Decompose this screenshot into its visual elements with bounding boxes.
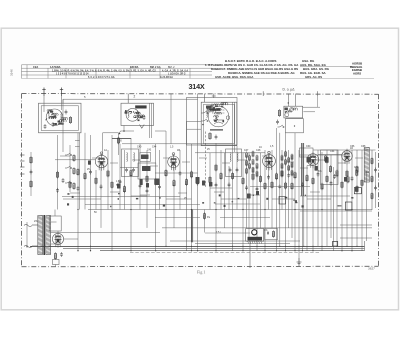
screened lead (dark double line) [301, 143, 303, 196]
tuning drive dashed link [205, 132, 207, 189]
capacitor C50 [267, 232, 268, 235]
resistor R3 [30, 180, 32, 188]
electrolytic capacitor [60, 252, 63, 257]
resistor R50 [371, 157, 373, 164]
svg-text:C48: C48 [256, 149, 261, 152]
svg-text:1,05%, 3,5 %, R, 6,% 2%, 5%,: 1,05%, 3,5 %, R, 6,% 2%, 5%, 8,4, 2 %, 9… [52, 69, 156, 72]
capacitor [65, 110, 68, 115]
bus y=241 [170, 240, 300, 242]
oscillator coil scribble [214, 112, 225, 122]
antenna terminal 1 [43, 88, 45, 97]
resistor R46 [329, 165, 331, 173]
dark component cluster [344, 177, 347, 182]
svg-text:C70: C70 [354, 166, 359, 169]
HT bus y=246.4 [30, 245, 365, 247]
resistor [259, 175, 261, 183]
capacitor [221, 103, 224, 108]
resistor chain element [281, 171, 283, 178]
resistor [341, 181, 343, 189]
switch resistor [73, 182, 75, 190]
lead continuation inside S1 [43, 103, 45, 112]
speaker winding dark band [248, 237, 263, 241]
capacitor [179, 171, 182, 176]
switch resistor [73, 167, 75, 175]
resistor R52 [371, 192, 373, 199]
bus y=248.7 [63, 248, 365, 250]
dark component cluster [88, 161, 91, 165]
resistor [242, 177, 244, 185]
resistor chain element [252, 159, 254, 166]
valve V1 (RF amplifier) [95, 153, 107, 170]
resistor [95, 177, 97, 185]
resistor chain element [252, 151, 254, 158]
coil [127, 153, 128, 162]
dark component cluster [202, 181, 205, 186]
wire bus: vertical wires [27, 94, 367, 267]
wire drop into S1 [62, 99, 64, 103]
dark component cluster [155, 179, 160, 186]
shield box S2 (RF coils) [121, 103, 154, 125]
resistor chain element [256, 155, 258, 162]
dark component cluster [140, 179, 143, 185]
wire: aerial lead-in right [61, 96, 63, 103]
capacitor [351, 176, 354, 181]
resistor [155, 178, 157, 186]
resistor chain element [285, 151, 287, 158]
capacitor [119, 179, 122, 184]
coil [137, 112, 138, 119]
resistor [271, 181, 273, 189]
component box B2 [345, 202, 352, 210]
IF transformer T1 box [122, 149, 139, 177]
resistor [173, 179, 175, 187]
wire: heavy lead under S2 [112, 138, 131, 140]
capacitor [287, 173, 290, 178]
resistor [130, 169, 132, 177]
svg-text:3627: 3627 [368, 266, 375, 270]
IFT1 upper chamber [140, 152, 151, 161]
converter cathode bar [210, 129, 223, 131]
dark component cluster [209, 182, 212, 187]
capacitor C30 [276, 120, 279, 125]
wire: speaker to frame bottom [249, 241, 251, 268]
resistor [321, 183, 323, 191]
wire: D leads to frame [287, 94, 289, 107]
valve V2 (IF amplifier) [168, 154, 180, 171]
dark component cluster [247, 194, 251, 199]
wire: rectifier box to HT rail [54, 210, 56, 217]
resistor chain element [252, 167, 254, 174]
resistor R30 [272, 230, 274, 238]
capacitor C65 [333, 174, 336, 179]
resistor chain element [291, 162, 293, 169]
coil [48, 111, 51, 119]
antenna terminal 2 [61, 88, 63, 97]
component box B1 [354, 188, 361, 194]
svg-text:D. o. μΔ: D. o. μΔ [283, 88, 296, 92]
IFT1 lower chamber [138, 163, 156, 179]
bus y=228 [162, 227, 372, 229]
capacitor [245, 185, 248, 190]
switch contact [65, 153, 72, 156]
svg-text:AGRS: AGRS [353, 72, 361, 76]
IF transformer T2 box [226, 149, 242, 177]
resistor R2 [30, 156, 32, 164]
component box B3 [279, 197, 286, 205]
resistor chain element [246, 168, 248, 175]
capacitor C73 [374, 186, 377, 191]
fuse box below [53, 260, 60, 265]
dark component cluster [146, 183, 149, 188]
wire: AVC top rail [63, 98, 198, 100]
svg-text:C60: C60 [306, 145, 311, 148]
capacitor [215, 183, 218, 188]
shield box S1 (aerial coils) [39, 103, 82, 133]
converter tube envelope [208, 106, 229, 127]
RF coil winding scribble [134, 115, 145, 121]
lamp wiring scribble [285, 108, 298, 113]
transformer tap stubs [51, 221, 57, 223]
resistor R51 [371, 175, 373, 182]
resistor [146, 175, 148, 183]
short lead segments [60, 156, 363, 196]
resistor chain element [256, 163, 258, 170]
chassis dashed frame right [378, 94, 380, 266]
HT line y=232.6 [63, 232, 160, 234]
right interconnect wires [299, 150, 376, 238]
capacitor [256, 187, 259, 192]
line y=143.8 [122, 143, 232, 145]
resistor [117, 137, 119, 145]
switch resistor [73, 154, 75, 162]
oscillator coil scribble [207, 103, 228, 113]
bus junction dots [26, 246, 27, 247]
capacitor [44, 124, 47, 129]
svg-text:2: 2 [134, 95, 136, 99]
resistor chain element [246, 152, 248, 159]
switch contact [202, 111, 209, 114]
resistor Pa [203, 212, 205, 219]
svg-text:C47: C47 [244, 149, 249, 152]
IFT1 lower coil smudge [142, 166, 151, 171]
capacitor [100, 184, 103, 189]
bus y=243.6 [195, 243, 290, 245]
resistor [232, 172, 234, 180]
speaker magnet circle [252, 230, 257, 235]
rectifier shield box [49, 216, 61, 231]
svg-text:1B: 1B [177, 149, 180, 152]
resistor chain element [281, 155, 283, 162]
dial lamp box [284, 106, 303, 118]
mains plug wavy leads [24, 224, 38, 247]
capacitor [301, 182, 304, 187]
resistor chain element [249, 163, 251, 170]
coil [230, 153, 231, 162]
wire: D box to right [303, 106, 320, 108]
capacitor [77, 186, 80, 191]
far-right component column [371, 150, 373, 210]
capacitor [267, 175, 270, 180]
resistor [107, 170, 109, 178]
wire: long vertical x186.5 [186, 121, 188, 250]
resistor [336, 170, 338, 178]
svg-text:C2A: C2A [33, 65, 38, 69]
parts table frame [22, 65, 375, 79]
mains transformer core [43, 215, 45, 255]
dark component cluster [315, 166, 318, 171]
switch contact [202, 119, 209, 122]
IFT1 trimmer a [125, 168, 128, 173]
misc wire stubs [55, 141, 331, 200]
capacitor C12 [215, 135, 218, 140]
svg-text:C40: C40 [137, 146, 142, 149]
coil [134, 153, 135, 162]
chassis dashed frame left [21, 94, 23, 267]
capacitor [139, 183, 142, 188]
electrode blob [213, 109, 221, 111]
capacitor C72 [374, 168, 377, 173]
resistor chain element [291, 170, 293, 177]
resistor [56, 171, 58, 179]
capacitor [158, 184, 161, 189]
valve V5 [342, 149, 353, 165]
wire: stage-2 grid lead [127, 94, 129, 104]
resistor [252, 173, 254, 181]
right ladder horizontals [250, 186, 310, 188]
shield box S3 (oscillator) [201, 102, 237, 146]
svg-text:1 2 3 4: 1 2 3 4 5 6 7 8 9 10 11 12 13 14 [56, 73, 89, 76]
chassis dashed frame bottom [22, 265, 379, 268]
resistor chain element [249, 155, 251, 162]
bus right corner vertical [364, 241, 366, 251]
speaker / output transformer box [246, 229, 264, 242]
capacitor [317, 172, 320, 177]
resistor chain element [291, 154, 293, 161]
resistor [294, 171, 296, 179]
resistor chain element [288, 165, 290, 172]
resistor [291, 182, 293, 190]
frame tick at 263 [262, 91, 264, 96]
wire: S2 down-left [119, 131, 121, 135]
resistor [209, 176, 211, 184]
switch contact [278, 125, 285, 128]
svg-text:C64: C64 [330, 150, 335, 153]
resistor [361, 179, 363, 187]
resistor R41 [347, 176, 349, 184]
wire tag into S3 [213, 94, 215, 98]
speaker frame hatching [248, 241, 262, 244]
svg-text:314X: 314X [10, 69, 14, 76]
capacitor [143, 115, 146, 120]
AVC rail [88, 209, 372, 211]
IFT2 trimmer b [236, 168, 239, 173]
terminal strip on frame [20, 155, 25, 174]
resistor chain element [285, 159, 287, 166]
shield box S3 inner wall [233, 102, 235, 152]
resistor [326, 156, 328, 164]
HT rail y=152.8 [195, 152, 265, 154]
svg-text:G 2A 4R GA: G 2A 4R GA [160, 76, 173, 79]
svg-text:L LGA GA. 2R G: L LGA GA. 2R G [168, 73, 186, 76]
dark component cluster [117, 184, 121, 189]
capacitor [52, 122, 55, 127]
V2 grid cap [172, 153, 175, 156]
dark component cluster [256, 191, 259, 195]
resistor [356, 166, 358, 174]
svg-text:314X: 314X [189, 82, 205, 91]
resistor [220, 172, 222, 180]
svg-text:5, 6, 2, 1 4: 5, 6, 2, 1 4 8 3 7 2 5 L GA [88, 76, 115, 79]
V4 dark electrode [307, 157, 311, 163]
capacitor [62, 178, 65, 183]
grid cap terminal [226, 116, 229, 119]
svg-text:1D: 1D [350, 147, 353, 150]
resistor [312, 177, 314, 185]
resistor [284, 182, 286, 190]
rectifier valve V6 [52, 231, 63, 247]
svg-text:C43: C43 [147, 150, 152, 152]
coil tap blob [50, 111, 53, 113]
switch contact [65, 181, 72, 184]
resistor [306, 174, 308, 182]
resistor [123, 185, 125, 193]
capacitor [56, 188, 59, 193]
aerial coil winding scribble [53, 117, 68, 125]
coil [207, 109, 208, 118]
capacitor [196, 181, 199, 186]
dial lamp 1 [285, 113, 289, 117]
resistor [356, 185, 358, 193]
resistor [77, 168, 79, 176]
resistor R1 [69, 116, 71, 124]
aerial coil winding scribble [46, 110, 59, 121]
resistor [346, 170, 348, 178]
junction [123, 130, 125, 132]
resistor chain element [246, 160, 248, 167]
wire: aerial lead-in left [43, 96, 45, 103]
resistor [275, 173, 277, 181]
svg-text:7,5 t: 7,5 t [216, 231, 221, 234]
capacitor [330, 181, 333, 186]
resistor [281, 170, 283, 178]
resistor chain element [288, 157, 290, 164]
resistor [326, 175, 328, 183]
capacitor [228, 182, 231, 187]
resistor [165, 169, 167, 177]
IFT1 coil smudge [141, 155, 149, 160]
resistor R45 [324, 155, 326, 163]
resistor chain element [256, 171, 258, 178]
screened lead pair at x192 [191, 210, 193, 243]
converter electrodes [212, 110, 225, 124]
scattered solder tags [67, 193, 353, 207]
valve V4 (output) [307, 152, 319, 169]
capacitor [211, 104, 214, 109]
osc coil blob [206, 106, 212, 109]
resistor chain element [281, 163, 283, 170]
aerial coil circle [46, 109, 63, 126]
svg-text:Fig 1: Fig 1 [197, 270, 205, 275]
resistor R40 [356, 169, 358, 177]
valve V3 (detector) [263, 153, 276, 171]
resistor [190, 171, 192, 179]
mains transformer secondary winding [46, 216, 51, 255]
capacitor [278, 184, 281, 189]
heater bus y=250.7 [100, 250, 365, 252]
resistor [111, 181, 113, 189]
shield box S3 inner lining [203, 104, 234, 143]
capacitor [146, 188, 149, 193]
capacitor [89, 170, 92, 175]
line y=131 top [155, 130, 166, 132]
output choke winding lower [364, 173, 369, 183]
svg-text:BM. 2 GA: BM. 2 GA [150, 66, 161, 69]
tone network box [265, 229, 278, 240]
shield box S1 inner wall [41, 106, 78, 131]
resistor [264, 182, 266, 190]
midband connector rails [62, 196, 180, 198]
resistor [84, 172, 86, 180]
dark component cluster [355, 188, 358, 192]
svg-text:1A: 1A [104, 149, 107, 152]
capacitor C8 [30, 170, 33, 175]
svg-text:GRS. AG. RS: GRS. AG. RS [305, 75, 322, 79]
output choke winding upper [364, 148, 369, 172]
resistor R7 [209, 132, 211, 140]
ground terminal on bottom frame [298, 258, 300, 266]
wire: below S2 [123, 126, 125, 132]
frame tick at 317 [317, 91, 319, 96]
coupling coil box [300, 148, 314, 157]
RF coil circle [126, 108, 139, 121]
resistor [185, 178, 187, 186]
wire: osc grid to frame [203, 94, 205, 103]
svg-text:4, GA. A, 2R, G. 5A, 0,4: 4, GA. A, 2R, G. 5A, 0,4 [162, 69, 188, 72]
V1 grid cap [100, 152, 103, 155]
chassis dashed frame top [22, 93, 379, 96]
svg-text:GSR. AGRE. BSG. RGS. EGA: GSR. AGRE. BSG. RGS. EGA [215, 75, 253, 79]
mains transformer primary winding [38, 216, 43, 255]
resistor R20 [278, 109, 280, 117]
resistor [69, 181, 71, 189]
svg-text:1C: 1C [259, 146, 262, 149]
valve top-cap V mark [140, 125, 145, 129]
resistor [215, 164, 217, 172]
shield box S2 nested wall lines [149, 103, 151, 138]
coil [128, 111, 129, 118]
V3 grid cap [268, 151, 271, 154]
junction [202, 124, 204, 126]
smoothing resistor [54, 252, 56, 260]
IFT2 trimmer a [229, 168, 232, 173]
svg-text:1A7GNA: 1A7GNA [50, 65, 61, 69]
meter box dot [294, 125, 295, 126]
output transformer assembly box [321, 150, 339, 185]
meter box [285, 119, 303, 133]
coil [61, 113, 62, 122]
dark component cluster [196, 177, 200, 184]
coil tap blob [58, 121, 61, 123]
enclosure corner below C [187, 128, 202, 130]
wire: rectifier output [64, 238, 78, 240]
switch contact [65, 166, 72, 169]
wire corner x102.6 [103, 132, 119, 134]
IFT1 trimmer b [132, 168, 135, 173]
lamp lead blob [285, 108, 288, 111]
heater dashed segment [130, 251, 320, 253]
dark component cluster [325, 158, 329, 163]
svg-text:C44: C44 [152, 146, 157, 149]
